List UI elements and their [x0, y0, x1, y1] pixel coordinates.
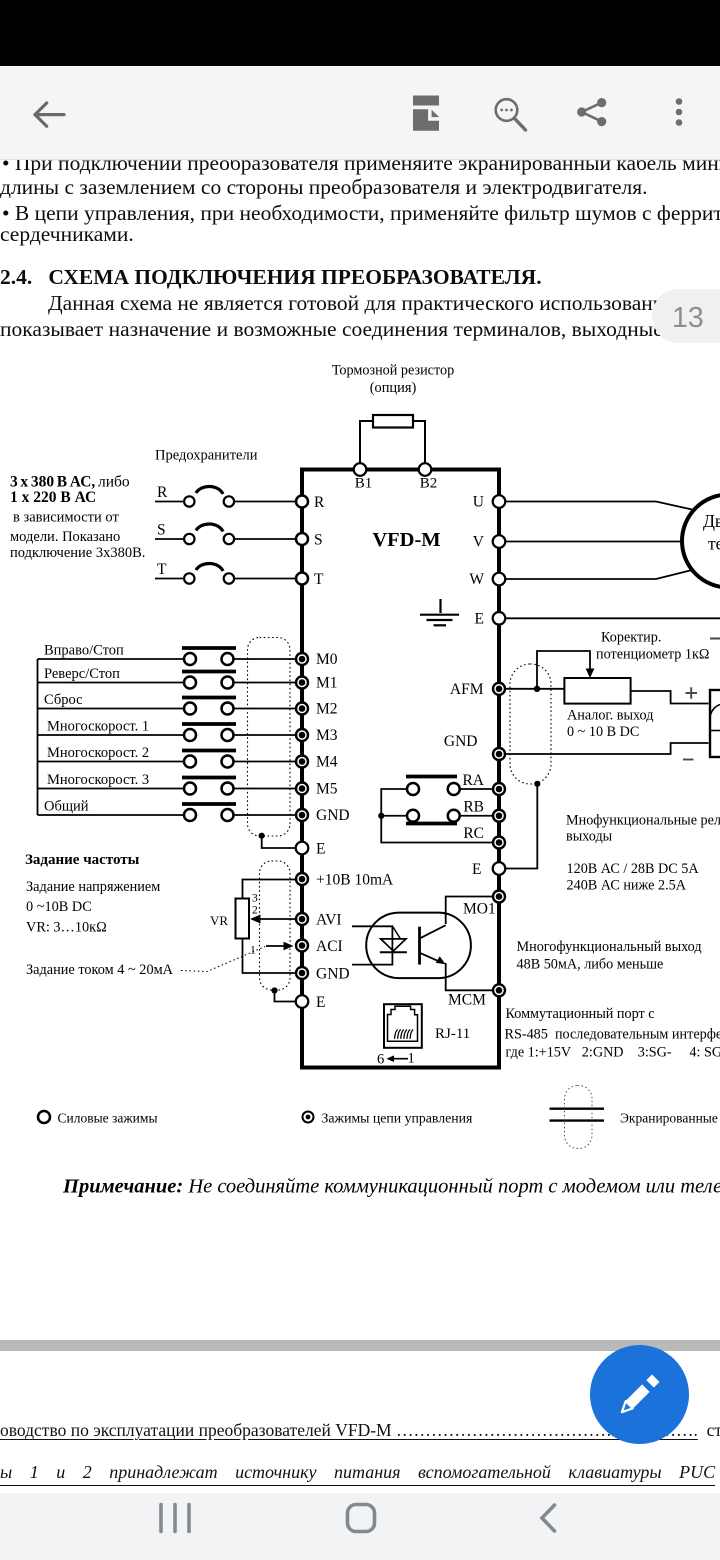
svg-text:R: R	[314, 494, 325, 511]
svg-text:M2: M2	[316, 701, 338, 718]
svg-text:2: 2	[252, 905, 258, 917]
svg-text:Задание частоты: Задание частоты	[25, 852, 140, 868]
svg-text:120В АС / 28В DC 5А: 120В АС / 28В DC 5А	[567, 861, 700, 877]
svg-text:Коректир.: Коректир.	[601, 630, 661, 646]
svg-text:MO1: MO1	[463, 901, 496, 918]
svg-text:Сброс: Сброс	[44, 692, 83, 708]
svg-text:B1: B1	[355, 476, 373, 492]
svg-text:где 1:+15V 2:GND 3:SG-: где 1:+15V 2:GND 3:SG- 4: SG-	[506, 1045, 720, 1061]
svg-text:RS-485 последовательным интер: RS-485 последовательным интерфейсом	[505, 1027, 720, 1043]
svg-text:3 x 380 В АС, либо: 3 x 380 В АС, либо	[10, 474, 130, 491]
svg-text:E: E	[316, 841, 325, 858]
svg-text:GND: GND	[316, 966, 350, 983]
svg-text:1: 1	[408, 1051, 415, 1067]
svg-text:Многоскорост. 2: Многоскорост. 2	[47, 745, 149, 761]
svg-text:MCM: MCM	[448, 992, 486, 1009]
svg-text:Коммутационный порт с: Коммутационный порт с	[506, 1006, 655, 1022]
svg-text:+10В 10mA: +10В 10mA	[316, 872, 394, 889]
svg-text:AVI: AVI	[316, 912, 342, 929]
svg-text:R: R	[157, 484, 168, 501]
svg-text:подключение 3х380В.: подключение 3х380В.	[10, 545, 145, 561]
svg-text:Многоскорост. 3: Многоскорост. 3	[47, 772, 149, 788]
svg-text:Реверс/Стоп: Реверс/Стоп	[44, 666, 120, 682]
svg-text:Зажимы цепи управления: Зажимы цепи управления	[322, 1111, 474, 1126]
svg-text:тель: тель	[708, 534, 720, 554]
svg-text:Задание напряжением: Задание напряжением	[26, 879, 160, 895]
svg-text:M5: M5	[316, 781, 338, 798]
svg-text:M1: M1	[316, 675, 338, 692]
svg-text:RA: RA	[462, 772, 484, 789]
svg-text:B2: B2	[420, 476, 438, 492]
svg-text:потенциометр 1кΩ: потенциометр 1кΩ	[596, 647, 709, 663]
svg-text:(опция): (опция)	[370, 380, 417, 396]
svg-text:T: T	[157, 561, 167, 578]
svg-text:E: E	[475, 610, 484, 627]
svg-text:3: 3	[252, 893, 258, 905]
svg-text:выходы: выходы	[566, 829, 613, 845]
svg-text:Мнофункциональные реле: Мнофункциональные реле	[566, 813, 720, 829]
svg-text:M0: M0	[316, 651, 338, 668]
svg-text:E: E	[316, 994, 325, 1011]
svg-text:RJ-11: RJ-11	[435, 1026, 470, 1042]
svg-text:в зависимости от: в зависимости от	[13, 510, 119, 526]
svg-text:Вправо/Стоп: Вправо/Стоп	[44, 643, 124, 659]
svg-text:RC: RC	[463, 825, 484, 842]
svg-text:0 ~ 10 В DC: 0 ~ 10 В DC	[567, 724, 639, 740]
svg-text:E: E	[472, 861, 481, 878]
svg-text:VR: 3…10кΩ: VR: 3…10кΩ	[26, 920, 107, 936]
svg-text:Тормозной резистор: Тормозной резистор	[332, 363, 454, 379]
svg-text:W: W	[469, 571, 484, 588]
svg-text:Двига: Двига	[703, 511, 720, 531]
svg-text:M3: M3	[316, 727, 338, 744]
svg-text:S: S	[157, 522, 166, 539]
svg-text:VFD-M: VFD-M	[372, 529, 440, 551]
svg-text:U: U	[473, 494, 484, 511]
svg-text:Экранированные пров: Экранированные пров	[620, 1111, 720, 1126]
svg-text:GND: GND	[316, 807, 350, 824]
svg-text:6: 6	[377, 1052, 384, 1068]
svg-text:Общий: Общий	[44, 799, 89, 815]
svg-text:AFM: AFM	[450, 681, 484, 698]
svg-text:0 ~10В DC: 0 ~10В DC	[26, 899, 92, 915]
svg-text:Силовые зажимы: Силовые зажимы	[58, 1111, 158, 1126]
svg-text:48В 50мА, либо меньше: 48В 50мА, либо меньше	[517, 957, 664, 973]
svg-text:ACI: ACI	[316, 938, 343, 955]
svg-text:M4: M4	[316, 754, 338, 771]
svg-text:1: 1	[250, 945, 256, 957]
svg-text:Задание током 4 ~ 20мА: Задание током 4 ~ 20мА	[26, 962, 174, 978]
svg-text:VR: VR	[210, 913, 228, 928]
svg-text:Примечание: Не соединяйте комм: Примечание: Не соединяйте коммуникационн…	[62, 1176, 720, 1198]
svg-text:T: T	[314, 571, 324, 588]
svg-text:Предохранители: Предохранители	[155, 448, 258, 464]
svg-text:Многоскорост. 1: Многоскорост. 1	[47, 719, 149, 735]
svg-text:модели. Показано: модели. Показано	[10, 529, 120, 545]
svg-text:S: S	[314, 532, 323, 549]
svg-text:1 x 220 В АС: 1 x 220 В АС	[10, 489, 96, 506]
svg-text:RB: RB	[463, 799, 484, 816]
svg-text:240В АС ниже 2.5А: 240В АС ниже 2.5А	[567, 878, 687, 894]
svg-text:V: V	[473, 534, 485, 551]
svg-text:Аналог. выход: Аналог. выход	[567, 708, 653, 724]
svg-text:GND: GND	[444, 733, 478, 750]
svg-text:Многофункциональный выход: Многофункциональный выход	[517, 939, 702, 955]
